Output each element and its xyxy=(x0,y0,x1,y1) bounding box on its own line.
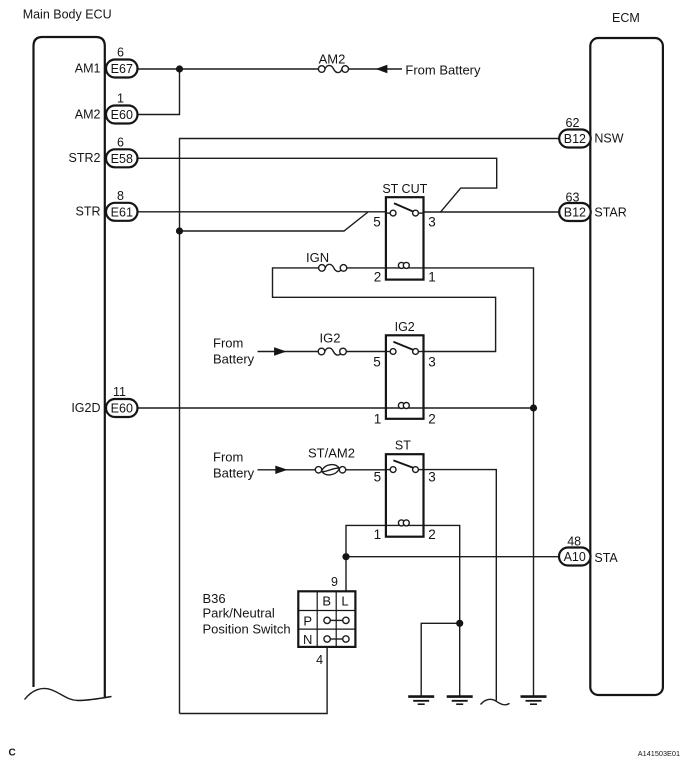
svg-text:5: 5 xyxy=(373,215,381,230)
svg-text:NSW: NSW xyxy=(594,131,623,145)
fusible link ST/AM2 xyxy=(315,465,345,475)
svg-text:A10: A10 xyxy=(564,550,586,564)
svg-text:E60: E60 xyxy=(111,402,133,416)
connector A10 pin 48 (STA) xyxy=(559,534,618,565)
ECM box xyxy=(590,38,663,695)
svg-text:62: 62 xyxy=(566,116,580,130)
svg-text:From: From xyxy=(213,450,243,465)
wire branch bus to ST CUT pin 5 (diagonal join) xyxy=(180,212,369,231)
svg-text:N: N xyxy=(303,632,312,647)
wire AM2 branch (junction down to E60) xyxy=(138,69,180,115)
svg-text:AM1: AM1 xyxy=(75,61,101,75)
svg-text:B12: B12 xyxy=(564,206,586,220)
from battery arrow IG2 xyxy=(274,347,286,355)
wire ST CUT pin 1 to ground bus xyxy=(424,268,534,696)
junction dot bus/pin5 branch xyxy=(176,227,183,234)
svg-text:3: 3 xyxy=(428,215,436,230)
svg-text:A141503E01: A141503E01 xyxy=(638,749,680,758)
wire STAR (ST CUT pin 3 to B12-63) xyxy=(424,211,560,213)
svg-text:E58: E58 xyxy=(111,152,133,166)
svg-text:Position Switch: Position Switch xyxy=(203,622,291,637)
ground (middle) xyxy=(447,697,473,705)
wire ST feed (arrow to fusible link to pin 5) xyxy=(258,469,386,471)
junction dot IG2D/ground bus xyxy=(530,404,537,411)
svg-text:ST CUT: ST CUT xyxy=(382,182,427,196)
svg-text:5: 5 xyxy=(373,355,381,370)
svg-text:Main Body ECU: Main Body ECU xyxy=(23,7,112,21)
Main Body ECU box xyxy=(25,37,112,701)
svg-text:2: 2 xyxy=(428,527,436,542)
svg-text:4: 4 xyxy=(316,653,323,667)
wire NSW (vertical bus x179.5 and line to B12-62) xyxy=(180,139,560,714)
wire IGN circuit (ST CUT pin 2 via IGN fuse to IG2 pin 3) xyxy=(273,268,496,352)
svg-text:STAR: STAR xyxy=(594,205,626,219)
wire STR (E61 to ST CUT pin 5) xyxy=(138,211,386,213)
connector E58 pin 6 (STR2) xyxy=(69,135,138,167)
svg-text:3: 3 xyxy=(428,470,436,485)
connector E60 pin 1 (AM2) xyxy=(75,91,138,123)
svg-text:ECM: ECM xyxy=(612,11,640,25)
svg-text:STR2: STR2 xyxy=(69,151,101,165)
from battery arrow top xyxy=(376,65,388,73)
svg-text:L: L xyxy=(341,593,348,608)
wire IG2D (E60-11 through IG2 coil to ground bus) xyxy=(138,407,534,409)
svg-text:2: 2 xyxy=(428,412,436,427)
svg-text:E61: E61 xyxy=(111,205,133,219)
svg-text:1: 1 xyxy=(374,527,382,542)
svg-text:1: 1 xyxy=(428,270,436,285)
svg-text:63: 63 xyxy=(566,191,580,205)
svg-text:48: 48 xyxy=(567,534,581,548)
connector B12 pin 63 (STAR) xyxy=(559,191,627,222)
svg-text:Park/Neutral: Park/Neutral xyxy=(203,606,275,621)
svg-text:B12: B12 xyxy=(564,132,586,146)
wire IG2 feed (arrow to fuse to pin 5) xyxy=(258,351,386,353)
relay ST xyxy=(374,439,436,542)
wire ST coil pin 1 to STA node xyxy=(346,525,386,591)
svg-text:ST: ST xyxy=(395,439,411,453)
junction dot AM1/AM2 xyxy=(176,65,183,72)
svg-text:6: 6 xyxy=(117,135,124,149)
svg-text:E67: E67 xyxy=(111,62,133,76)
wire ground branch xyxy=(421,623,460,696)
connector E67 pin 6 (AM1) xyxy=(75,46,138,78)
svg-text:From Battery: From Battery xyxy=(405,63,481,78)
svg-text:2: 2 xyxy=(374,270,382,285)
fuse AM2 xyxy=(318,65,348,72)
wire STA (node to A10-48) xyxy=(346,556,559,558)
svg-text:9: 9 xyxy=(331,575,338,589)
svg-text:P: P xyxy=(303,614,312,629)
relay ST CUT xyxy=(373,182,436,285)
svg-text:ST/AM2: ST/AM2 xyxy=(308,446,355,461)
park/neutral position switch B36 xyxy=(298,575,355,667)
connector E61 pin 8 (STR) xyxy=(76,189,138,221)
continuation squiggle (ST pin 3 wire) xyxy=(481,699,510,704)
svg-text:From: From xyxy=(213,335,243,350)
junction dot ground branch xyxy=(456,620,463,627)
wire From Battery tail (top) xyxy=(349,68,403,70)
fuse IG2 xyxy=(318,348,346,355)
relay IG2 xyxy=(373,320,436,427)
wire AM1 feed (E67 to AM2 fuse) xyxy=(138,68,319,70)
label B36 Park/Neutral Position Switch xyxy=(203,591,291,637)
wire ST coil pin 2 to ground xyxy=(424,525,460,696)
connector E60 pin 11 (IG2D) xyxy=(71,385,137,417)
svg-text:C: C xyxy=(9,748,16,759)
connector B12 pin 62 (NSW) xyxy=(559,116,624,148)
ground (left) xyxy=(408,697,434,705)
ground (right) xyxy=(521,697,547,705)
svg-text:11: 11 xyxy=(113,385,126,399)
svg-text:6: 6 xyxy=(117,46,124,60)
svg-text:B36: B36 xyxy=(203,591,226,606)
fuse IGN xyxy=(319,264,347,271)
svg-text:8: 8 xyxy=(117,189,124,203)
wire ST pin 3 down to continuation squiggle xyxy=(424,470,497,701)
svg-text:STR: STR xyxy=(76,205,101,219)
label From Battery (IG2) xyxy=(213,335,255,366)
svg-text:AM2: AM2 xyxy=(75,107,101,121)
svg-text:B: B xyxy=(322,593,331,608)
label From Battery (ST) xyxy=(213,450,255,481)
svg-text:IGN: IGN xyxy=(306,250,329,265)
svg-text:1: 1 xyxy=(374,412,382,427)
svg-text:5: 5 xyxy=(374,470,382,485)
svg-text:IG2: IG2 xyxy=(320,331,341,346)
junction dot STA node xyxy=(342,553,349,560)
svg-text:E60: E60 xyxy=(111,108,133,122)
svg-text:Battery: Battery xyxy=(213,351,255,366)
svg-text:AM2: AM2 xyxy=(319,52,346,67)
svg-text:1: 1 xyxy=(117,91,124,105)
svg-text:IG2: IG2 xyxy=(395,320,415,334)
wire B36 pin 4 loop to bus xyxy=(180,647,328,714)
svg-text:STA: STA xyxy=(594,551,618,565)
from battery arrow ST xyxy=(275,466,287,474)
wire STR2 (E58 to ST CUT pin 3 jog) xyxy=(138,158,497,212)
svg-text:3: 3 xyxy=(428,355,436,370)
svg-text:IG2D: IG2D xyxy=(71,401,100,415)
svg-text:Battery: Battery xyxy=(213,466,255,481)
